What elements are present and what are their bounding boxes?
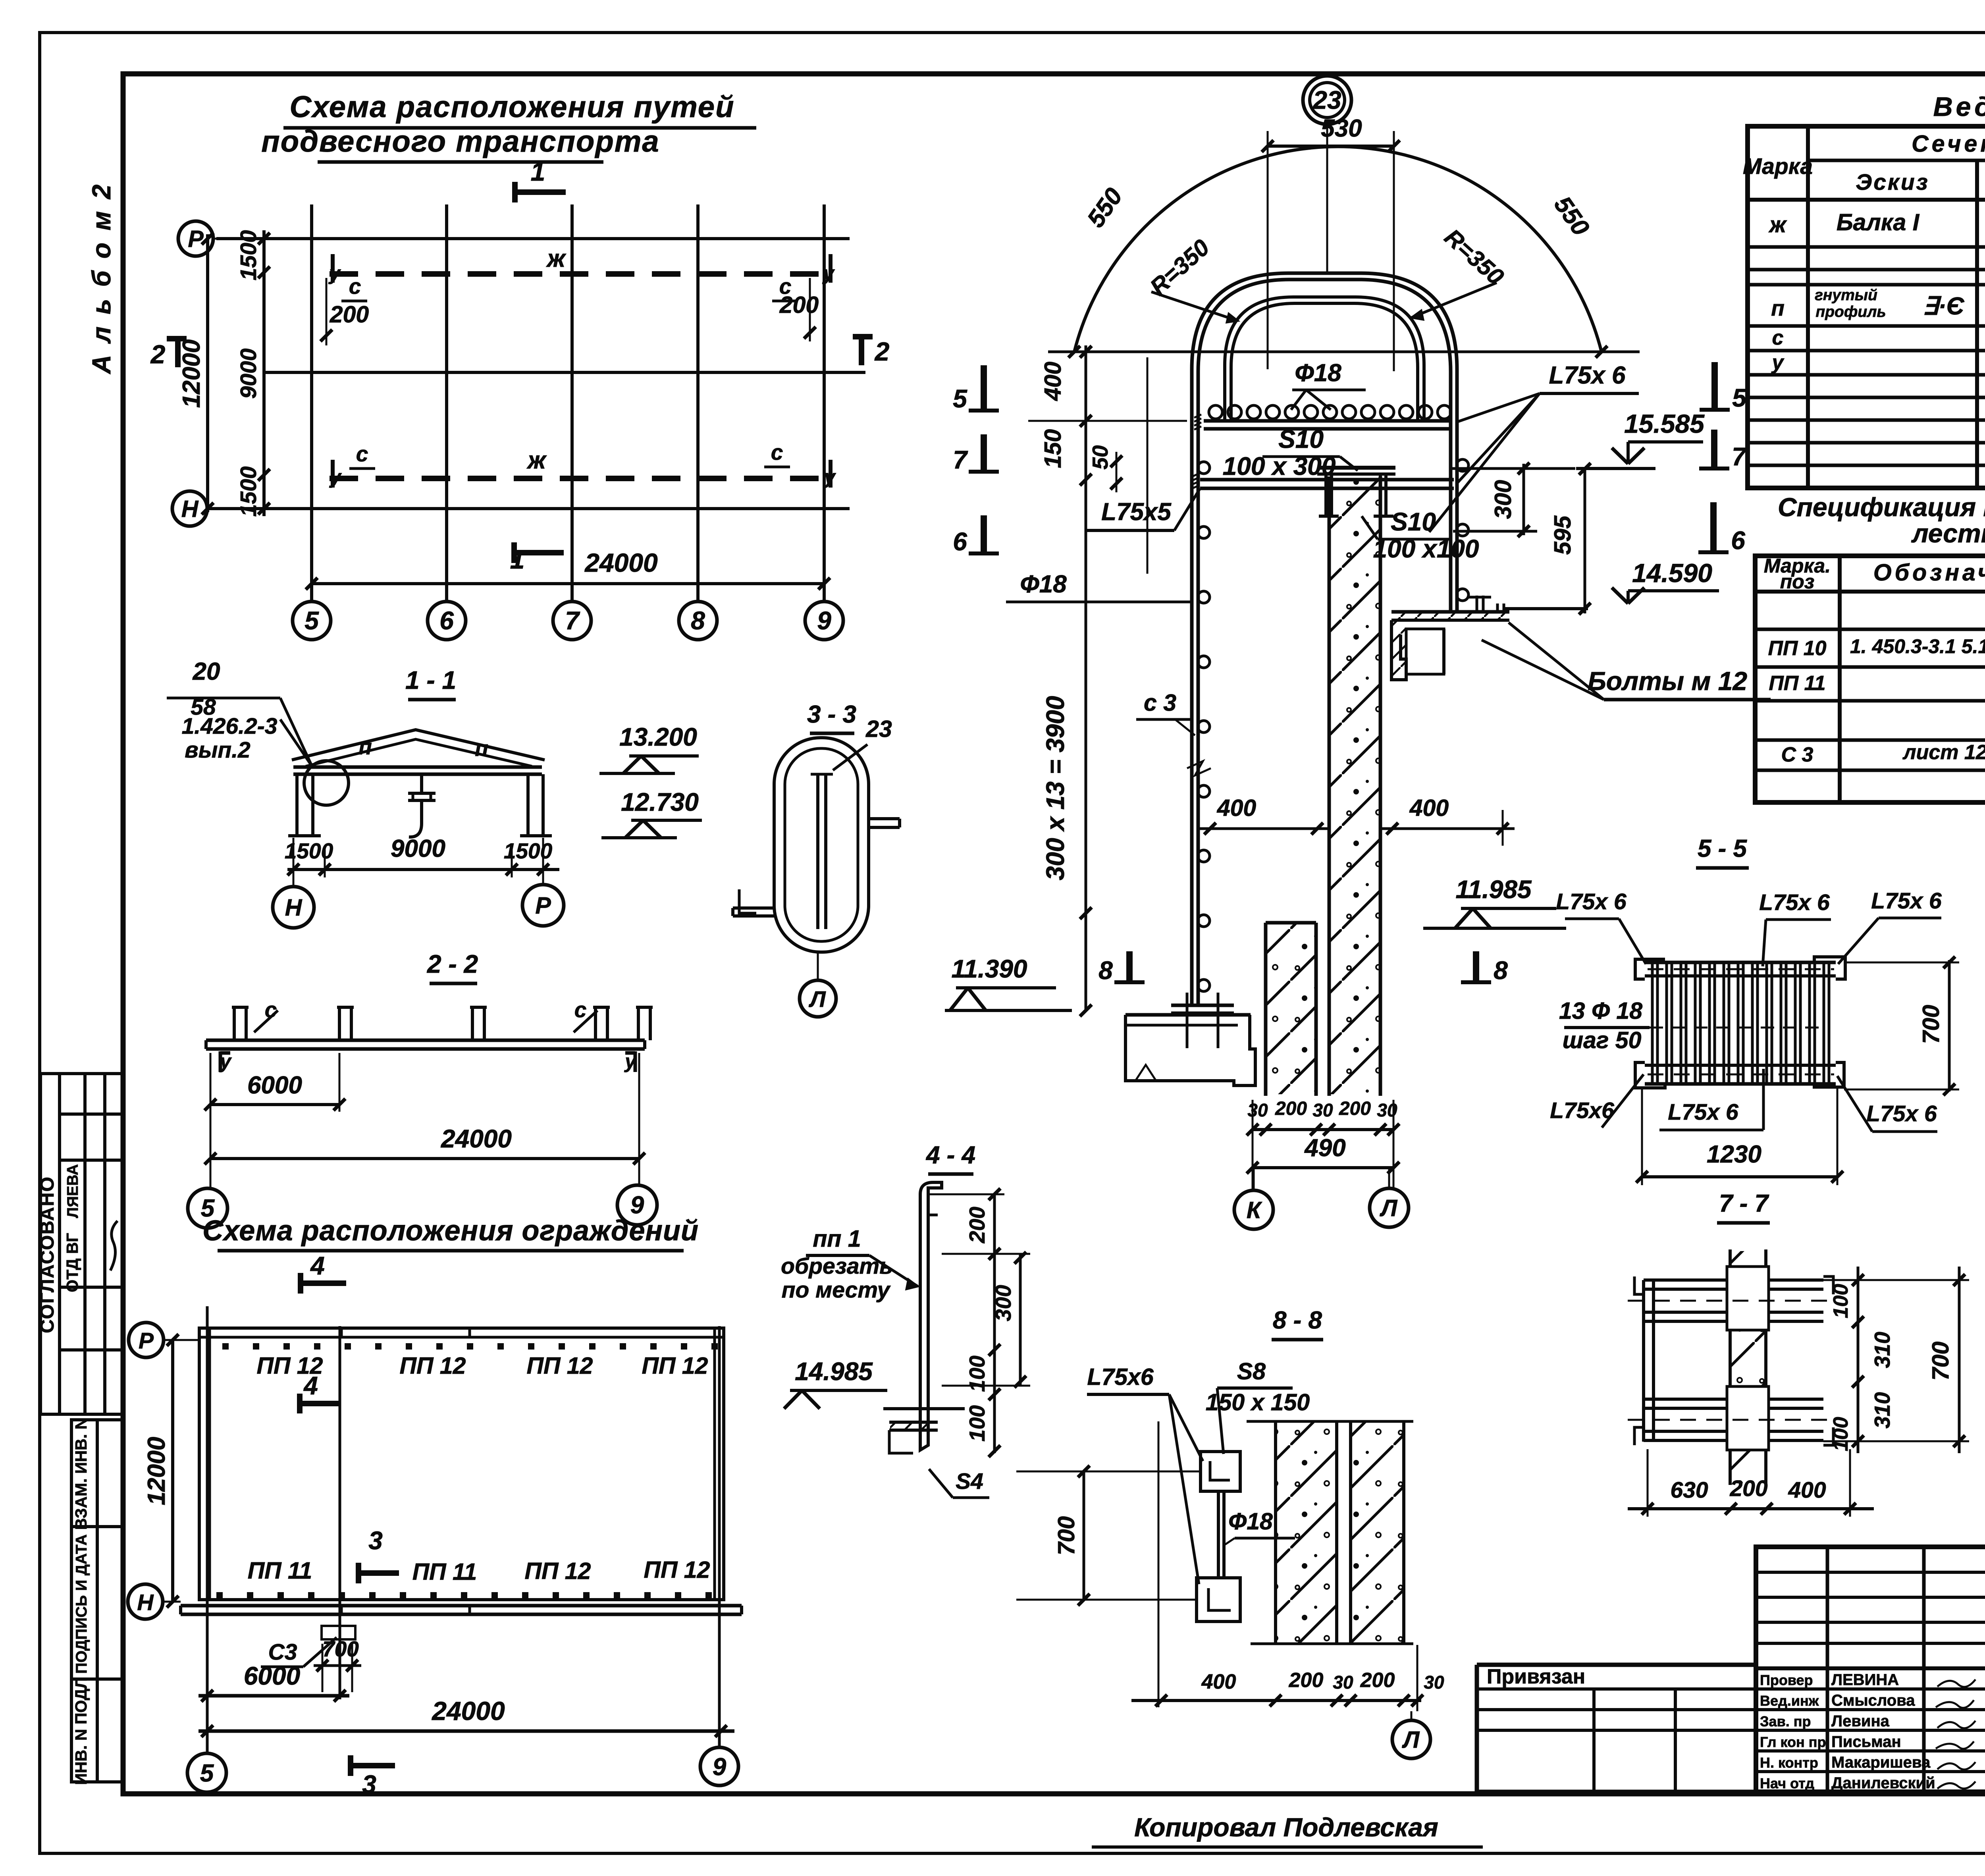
svg-text:ОТД ВГ: ОТД ВГ — [63, 1233, 81, 1292]
svg-text:ПП 12: ПП 12 — [642, 1353, 708, 1379]
svg-text:ж: ж — [1768, 212, 1787, 237]
svg-text:5 - 5: 5 - 5 — [1698, 835, 1748, 862]
section mark 7 right — [1711, 430, 1717, 469]
svg-text:6: 6 — [953, 527, 967, 556]
svg-text:Л: Л — [1380, 1195, 1398, 1221]
2-2 dim 24000 — [210, 1157, 639, 1160]
svg-text:30: 30 — [1333, 1672, 1353, 1693]
2-2 circle 9 — [617, 1185, 657, 1225]
svg-text:150 x 150: 150 x 150 — [1206, 1389, 1310, 1415]
svg-text:7: 7 — [1732, 442, 1747, 471]
fence posts top — [222, 1343, 229, 1350]
svg-text:ж: ж — [526, 447, 547, 474]
svg-text:Н. контр: Н. контр — [1760, 1755, 1818, 1771]
dim 595 right — [1584, 469, 1586, 613]
svg-text:Нач отд: Нач отд — [1760, 1775, 1814, 1791]
svg-text:100: 100 — [1829, 1284, 1852, 1319]
svg-text:1 - 1: 1 - 1 — [405, 666, 456, 694]
svg-text:L75x 6: L75x 6 — [1556, 889, 1627, 914]
svg-text:3 - 3: 3 - 3 — [807, 701, 856, 728]
3-3 inner plate — [816, 774, 819, 929]
svg-text:Сечение: Сечение — [1912, 131, 1985, 157]
svg-text:23: 23 — [865, 716, 892, 742]
fence plan rectangle — [199, 1328, 724, 1600]
svg-text:Л: Л — [1402, 1727, 1420, 1753]
7-7 bottom dims — [1628, 1507, 1874, 1510]
2-2 beam — [206, 1039, 645, 1042]
1-1 roof top chord — [292, 730, 545, 760]
svg-text:3: 3 — [362, 1770, 376, 1799]
svg-text:12000: 12000 — [143, 1437, 170, 1505]
svg-text:550: 550 — [1082, 183, 1128, 232]
svg-text:9: 9 — [713, 1753, 727, 1781]
svg-text:п: п — [1771, 296, 1785, 320]
svg-text:530: 530 — [1321, 115, 1362, 142]
svg-text:490: 490 — [1304, 1134, 1345, 1162]
svg-text:2: 2 — [874, 337, 890, 366]
svg-text:7: 7 — [565, 606, 580, 635]
svg-text:шаг 50: шаг 50 — [1563, 1027, 1642, 1053]
circle L2 — [1370, 1188, 1409, 1227]
rung circles row (13 f18) — [1209, 405, 1222, 419]
dim 300 right — [1522, 464, 1525, 535]
svg-text:30: 30 — [1424, 1672, 1444, 1693]
svg-text:300: 300 — [991, 1285, 1016, 1321]
svg-text:Ф18: Ф18 — [1295, 359, 1341, 387]
2-2 circle 5 — [188, 1188, 227, 1228]
svg-text:профиль: профиль — [1815, 303, 1886, 320]
svg-text:∃·Є: ∃·Є — [1923, 293, 1965, 320]
svg-text:L75x6: L75x6 — [1550, 1098, 1614, 1123]
4-4 bent profile — [920, 1182, 942, 1450]
svg-text:п: п — [358, 735, 372, 759]
svg-text:1500: 1500 — [504, 839, 553, 863]
svg-text:L75x5: L75x5 — [1101, 498, 1172, 526]
svg-text:у: у — [822, 262, 835, 284]
sidebar signature — [110, 1221, 118, 1271]
svg-text:обрезать: обрезать — [781, 1253, 893, 1279]
section mark 2 right — [859, 335, 864, 365]
svg-text:S10: S10 — [1278, 425, 1324, 453]
3-3 right tab — [869, 817, 900, 820]
svg-text:L75x 6: L75x 6 — [1549, 362, 1626, 389]
svg-text:п: п — [475, 736, 488, 761]
svg-text:ПП 10: ПП 10 — [1768, 637, 1826, 660]
svg-text:200: 200 — [1729, 1476, 1767, 1501]
svg-text:8: 8 — [691, 606, 705, 635]
section mark 6 right — [1710, 502, 1717, 552]
svg-text:ЛЕВИНА: ЛЕВИНА — [1831, 1671, 1899, 1689]
section mark 6 left — [981, 515, 987, 553]
svg-text:S4: S4 — [956, 1469, 983, 1494]
svg-text:310: 310 — [1870, 1392, 1894, 1429]
monorail stub above bracket — [1476, 596, 1478, 612]
1-1 roof beam — [293, 765, 542, 769]
5-5 rungs — [1651, 962, 1654, 1084]
svg-text:6: 6 — [439, 606, 454, 635]
plan row P line — [216, 237, 850, 240]
1-1 hook — [409, 800, 422, 837]
grid circle H — [172, 491, 207, 526]
svg-text:8 - 8: 8 - 8 — [1273, 1307, 1322, 1334]
svg-text:L75x6: L75x6 — [1087, 1364, 1154, 1390]
fence dim 24000 — [198, 1729, 734, 1733]
svg-text:ЛЯЕВА: ЛЯЕВА — [64, 1164, 81, 1218]
svg-text:200: 200 — [1339, 1098, 1371, 1119]
svg-text:поз: поз — [1780, 571, 1815, 593]
svg-text:Гл кон пр: Гл кон пр — [1760, 1734, 1826, 1750]
svg-text:с: с — [574, 997, 587, 1022]
dim 400 right of column — [1380, 827, 1515, 830]
5-5 bottom rail — [1645, 1064, 1836, 1067]
dimension arc 550 — [1074, 147, 1601, 352]
svg-text:СОГЛАСОВАНО: СОГЛАСОВАНО — [37, 1176, 58, 1333]
ladder cage outer hoop — [1192, 273, 1457, 439]
section mark 2 left — [175, 337, 181, 367]
svg-text:L75x 6: L75x 6 — [1871, 888, 1942, 914]
svg-text:Р: Р — [535, 893, 551, 919]
1-1 detail circle callout — [304, 761, 349, 805]
8-8 vertical ext — [1158, 1421, 1160, 1707]
svg-text:Провер: Провер — [1760, 1672, 1813, 1688]
svg-text:1500: 1500 — [285, 839, 333, 863]
svg-text:150: 150 — [1040, 429, 1066, 469]
ladder right stringer — [1449, 439, 1453, 612]
svg-text:5: 5 — [304, 606, 319, 635]
ladder foot plate — [1171, 1004, 1234, 1007]
svg-text:2 - 2: 2 - 2 — [427, 950, 478, 978]
svg-text:R=350: R=350 — [1145, 234, 1214, 301]
1-1 monorail hanger — [420, 774, 423, 792]
svg-text:ИНВ. N ПОДЛ: ИНВ. N ПОДЛ — [72, 1677, 90, 1785]
ladder cage inner hoop — [1225, 297, 1424, 421]
svg-text:L75x 6: L75x 6 — [1759, 890, 1830, 915]
svg-text:550: 550 — [1549, 191, 1595, 241]
svg-text:400: 400 — [1040, 362, 1066, 401]
svg-text:Вед.инж: Вед.инж — [1760, 1693, 1819, 1709]
3-3 circle L — [817, 952, 819, 981]
svg-text:630: 630 — [1670, 1477, 1708, 1503]
dim chain 1500 9000 1500 — [262, 230, 266, 516]
dim 12000 — [206, 234, 209, 512]
vedomost table grid — [1748, 126, 1985, 488]
bottom dim chain 30 200 30 200 30 — [1253, 1128, 1393, 1131]
svg-text:1230: 1230 — [1707, 1141, 1761, 1168]
svg-text:12.730: 12.730 — [621, 788, 699, 816]
5-5 dim 1230 — [1642, 1175, 1837, 1178]
7-7 bottom beams — [1644, 1398, 1823, 1401]
cap hanger bolts — [1324, 474, 1328, 516]
svg-text:5: 5 — [1732, 384, 1747, 412]
svg-text:2: 2 — [150, 339, 166, 369]
svg-text:L75x 6: L75x 6 — [1866, 1101, 1937, 1126]
svg-text:Левина: Левина — [1831, 1712, 1890, 1730]
8-8 bottom dim chain — [1131, 1699, 1421, 1702]
privyazan box — [1477, 1663, 1756, 1667]
svg-text:Смыслова: Смыслова — [1831, 1692, 1915, 1709]
svg-text:Данилевский: Данилевский — [1831, 1774, 1935, 1792]
svg-text:пп 1: пп 1 — [813, 1226, 861, 1252]
svg-text:30: 30 — [1247, 1100, 1268, 1120]
sidebar upper block — [40, 1074, 123, 1414]
svg-text:400: 400 — [1201, 1670, 1236, 1693]
svg-text:по месту: по месту — [782, 1277, 891, 1303]
svg-text:30: 30 — [1312, 1100, 1333, 1120]
svg-text:Схема расположения путей: Схема расположения путей — [289, 90, 734, 124]
svg-text:24000: 24000 — [441, 1124, 512, 1153]
svg-text:ПП 12: ПП 12 — [527, 1353, 593, 1379]
ext line right level — [1451, 467, 1575, 470]
svg-text:Письман: Письман — [1831, 1733, 1901, 1751]
grid circle P — [178, 221, 213, 256]
4-4 dim chain right — [993, 1193, 996, 1453]
svg-text:300: 300 — [1490, 480, 1516, 519]
1-1 circle N — [273, 887, 314, 928]
column cap plate — [1317, 466, 1395, 470]
svg-text:9000: 9000 — [236, 348, 261, 399]
circle K — [1234, 1190, 1273, 1229]
5-5 corner angles — [1635, 959, 1663, 979]
svg-text:14.590: 14.590 — [1632, 558, 1712, 588]
svg-text:с: с — [779, 274, 792, 299]
title block verticals left — [1826, 1547, 1829, 1792]
node circle 23 — [1303, 76, 1351, 124]
svg-text:400: 400 — [1409, 795, 1449, 821]
fence circle H — [128, 1584, 163, 1619]
3-3 left tab — [733, 906, 775, 910]
spec table grid — [1755, 556, 1985, 802]
8-8 dim 700 — [1083, 1471, 1085, 1600]
svg-text:Р: Р — [139, 1328, 154, 1353]
svg-text:1.426.2-3: 1.426.2-3 — [182, 713, 278, 739]
2-2 dim 6000 — [210, 1103, 339, 1106]
4-4 wall bracket — [889, 1421, 938, 1424]
svg-text:Л: Л — [808, 987, 826, 1012]
fence column line 5 — [206, 1306, 209, 1616]
svg-text:700: 700 — [322, 1637, 359, 1661]
svg-text:Балка I: Балка I — [1837, 209, 1920, 235]
svg-text:4: 4 — [303, 1371, 318, 1400]
svg-text:100 x100: 100 x100 — [1373, 534, 1479, 563]
svg-text:лист 12: лист 12 — [1902, 741, 1985, 764]
3-3 cage hoop inner — [785, 748, 858, 941]
svg-text:Р: Р — [188, 226, 204, 252]
svg-text:Болты м 12: Болты м 12 — [1588, 666, 1747, 696]
svg-text:с 3: с 3 — [1144, 690, 1176, 716]
svg-text:9: 9 — [817, 606, 831, 635]
concrete column — [1328, 476, 1331, 1096]
rung bolts on left stringer — [1198, 462, 1210, 474]
ext vertical 2890 — [1147, 357, 1149, 574]
svg-text:Марка: Марка — [1743, 154, 1813, 179]
svg-text:Привязан: Привязан — [1487, 1665, 1585, 1688]
grid circles 5 6 7 8 9 — [293, 602, 331, 640]
7-7 left angles — [1642, 1280, 1645, 1442]
upper platform — [1204, 419, 1450, 423]
svg-text:700: 700 — [1918, 1005, 1944, 1044]
svg-text:с: с — [349, 274, 361, 299]
svg-text:С 3: С 3 — [1781, 743, 1813, 766]
svg-text:1. 450.3-3.1 5.1.0.10: 1. 450.3-3.1 5.1.0.10 — [1850, 635, 1985, 657]
svg-text:8: 8 — [1494, 956, 1508, 985]
dim 300x13=3900 — [1085, 494, 1087, 1010]
svg-text:А л ь б о м 2: А л ь б о м 2 — [87, 182, 116, 375]
section mark 5 left — [981, 365, 987, 411]
svg-text:24000: 24000 — [584, 548, 658, 577]
8-8 left anchor squares — [1201, 1452, 1240, 1491]
svg-text:3: 3 — [368, 1526, 383, 1555]
svg-text:ПП 12: ПП 12 — [400, 1353, 466, 1379]
svg-text:300 x 13 = 3900: 300 x 13 = 3900 — [1041, 696, 1070, 880]
svg-text:Н: Н — [181, 496, 199, 522]
dim 400 left of column — [1198, 827, 1329, 830]
svg-text:ПП 12: ПП 12 — [644, 1557, 710, 1583]
svg-text:310: 310 — [1870, 1332, 1894, 1368]
svg-text:1: 1 — [531, 157, 545, 186]
svg-text:Н: Н — [137, 1590, 154, 1615]
svg-text:50: 50 — [1088, 445, 1112, 470]
fence dim 12000 — [171, 1340, 174, 1602]
7-7 top beams — [1644, 1278, 1823, 1282]
svg-text:400: 400 — [1217, 795, 1257, 821]
svg-text:100: 100 — [1829, 1417, 1852, 1452]
plan column lines 5-9 — [310, 204, 313, 602]
svg-text:Схема расположения ограждени: Схема расположения ограждений — [202, 1215, 699, 1247]
svg-text:4: 4 — [310, 1251, 325, 1280]
svg-text:200: 200 — [330, 301, 369, 328]
svg-text:11.390: 11.390 — [952, 954, 1027, 983]
svg-text:24000: 24000 — [431, 1696, 505, 1726]
svg-text:ж: ж — [546, 245, 567, 272]
8-8 circle L — [1392, 1720, 1430, 1758]
svg-text:К: К — [1247, 1197, 1262, 1223]
2-2 posts — [233, 1007, 236, 1040]
svg-text:200: 200 — [1289, 1669, 1324, 1692]
svg-text:1500: 1500 — [236, 466, 261, 517]
svg-text:ПП 11: ПП 11 — [248, 1558, 312, 1584]
svg-text:12000: 12000 — [178, 339, 205, 408]
8-8 wall strips — [1247, 1420, 1413, 1423]
section mark 8 right — [1473, 951, 1479, 982]
5-5 dim 700 — [1948, 960, 1951, 1091]
svg-text:ПП 11: ПП 11 — [412, 1559, 477, 1585]
1-1 right column — [526, 774, 530, 836]
svg-text:Ведомость элементов: Ведомость элементов — [1933, 92, 1985, 122]
1-1 left column — [295, 774, 299, 836]
svg-text:Спецификация к схеме рас: Спецификация к схеме расположения пожарн… — [1778, 492, 1985, 522]
5-5 top rail — [1645, 961, 1836, 964]
svg-text:Ф18: Ф18 — [1020, 571, 1067, 598]
svg-text:200: 200 — [1275, 1098, 1307, 1119]
console bracket — [1391, 610, 1509, 614]
7-7 wall strip — [1729, 1249, 1732, 1485]
7-7 right angle caps — [1823, 1276, 1833, 1294]
stringer break — [1187, 761, 1211, 775]
svg-text:1500: 1500 — [236, 230, 261, 280]
svg-text:6: 6 — [1731, 526, 1745, 555]
fence column line 9 — [718, 1326, 721, 1616]
svg-text:5: 5 — [953, 384, 967, 413]
svg-text:ПП 11: ПП 11 — [1769, 672, 1825, 695]
svg-text:С3: С3 — [268, 1639, 297, 1665]
7-7 dims right — [1857, 1267, 1860, 1453]
5-5 center dashes — [1648, 968, 1834, 970]
3-3 cage hoop outer — [774, 738, 869, 952]
fence circle 9 — [700, 1747, 738, 1785]
svg-text:с: с — [1772, 326, 1784, 349]
svg-text:200: 200 — [1360, 1669, 1395, 1692]
3-3 small angle left — [739, 889, 756, 913]
svg-text:лестницы и ограждений.: лестницы и ограждений. — [1911, 519, 1985, 548]
dim 24000 bottom — [312, 582, 824, 585]
fence posts bottom — [216, 1592, 223, 1598]
plan monorail beam lower (dashed) — [330, 476, 832, 481]
8-8 anchor rod — [1217, 1491, 1220, 1578]
svg-text:Ф18: Ф18 — [1228, 1508, 1273, 1535]
svg-text:ПП 12: ПП 12 — [525, 1558, 591, 1584]
svg-text:Макаришева: Макаришева — [1831, 1754, 1931, 1771]
svg-text:с: с — [356, 442, 368, 466]
svg-text:ПОДПИСЬ И ДАТА: ПОДПИСЬ И ДАТА — [73, 1534, 90, 1674]
left dim chain 400 150 50 — [1085, 345, 1087, 494]
svg-text:13 Ф 18: 13 Ф 18 — [1559, 998, 1642, 1024]
svg-text:11.985: 11.985 — [1456, 875, 1532, 904]
svg-text:Копировал Подлевская: Копировал Подлевская — [1134, 1812, 1438, 1842]
svg-text:13.200: 13.200 — [619, 723, 697, 751]
svg-text:подвесного транспорта: подвесного транспорта — [261, 125, 659, 158]
svg-text:595: 595 — [1549, 515, 1576, 555]
dim 490 — [1253, 1166, 1393, 1169]
svg-text:7 - 7: 7 - 7 — [1719, 1190, 1769, 1217]
svg-text:с: с — [771, 440, 783, 465]
svg-text:6000: 6000 — [247, 1072, 302, 1099]
svg-text:Зав. пр: Зав. пр — [1760, 1713, 1811, 1729]
lower pier concrete — [1264, 923, 1268, 1096]
svg-text:Обозначение: Обозначение — [1873, 559, 1985, 586]
svg-text:L75x 6: L75x 6 — [1668, 1099, 1738, 1125]
svg-text:9000: 9000 — [391, 835, 445, 862]
svg-text:гнутый: гнутый — [1815, 287, 1877, 304]
fence dim 6000 — [198, 1694, 349, 1698]
section mark 5 right — [1711, 362, 1718, 410]
fence bottom beam — [181, 1604, 742, 1608]
svg-text:700: 700 — [1927, 1342, 1954, 1381]
svg-text:100: 100 — [965, 1405, 989, 1442]
section mark 8 left — [1126, 951, 1133, 982]
sidebar lower block — [71, 1420, 123, 1782]
second platform — [1200, 478, 1454, 482]
svg-text:R=350: R=350 — [1440, 224, 1509, 290]
1-1 dim chain — [287, 868, 559, 871]
svg-text:ВЗАМ. ИНВ. N: ВЗАМ. ИНВ. N — [72, 1418, 90, 1530]
foundation — [1125, 1013, 1251, 1017]
svg-text:700: 700 — [1053, 1516, 1079, 1556]
fence C3 detail — [322, 1626, 355, 1639]
title block horizontal rows upper — [1756, 1571, 1985, 1574]
svg-text:7: 7 — [953, 445, 968, 474]
svg-text:6000: 6000 — [244, 1662, 300, 1690]
title block signatures — [1937, 1679, 1975, 1687]
svg-text:S8: S8 — [1237, 1358, 1266, 1384]
1-1 circle P — [522, 885, 564, 926]
svg-text:200: 200 — [965, 1207, 989, 1244]
plan row middle line — [264, 371, 865, 374]
svg-text:Эскиз: Эскиз — [1856, 170, 1929, 195]
svg-text:400: 400 — [1788, 1477, 1826, 1503]
svg-text:8: 8 — [1098, 956, 1113, 985]
svg-text:15.585: 15.585 — [1624, 409, 1705, 438]
plan row H line — [206, 507, 850, 510]
